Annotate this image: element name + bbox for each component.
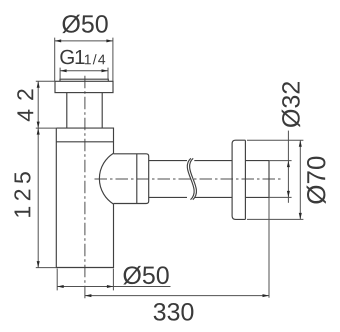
- neck tube: [67, 93, 102, 129]
- dome elbow arc: [99, 153, 113, 204]
- nut ring line: [136, 154, 138, 204]
- dim G1 1/4: label: [60, 50, 84, 65]
- dim 125: label: [14, 172, 30, 217]
- horizontal centerline of pipe: [95, 178, 281, 180]
- dim G1 1/4: extension lines: [60, 68, 108, 79]
- vertical centerline of bottle: [84, 76, 86, 298]
- dim Ø32: arrows: [287, 161, 290, 168]
- dim Ø50 bottom: extension lines: [57, 269, 113, 291]
- dim G1 1/4: dimension line: [60, 70, 108, 72]
- dim 330: arrows: [85, 294, 92, 297]
- dim Ø70: extension lines: [247, 140, 303, 219]
- dim G1 1/4: arrows: [60, 69, 67, 72]
- dim Ø32: extension lines: [269, 161, 292, 198]
- cap top plate (G1 1/4 thread end): [60, 79, 108, 81]
- pipe bottom wall: [149, 196, 232, 198]
- dim 42: shared vertical dimension line (with 125): [37, 81, 39, 267]
- pipe top wall: [149, 160, 232, 162]
- dim Ø50 bottom: label: [123, 266, 168, 285]
- dim Ø32: label: [282, 82, 301, 127]
- dim Ø50 top: arrows: [55, 39, 62, 42]
- dim 330: dimension line: [85, 295, 269, 297]
- dim 330: label: [154, 303, 194, 321]
- dim 42: arrows: [37, 81, 40, 88]
- wall flange plate: [232, 140, 245, 219]
- dim 42: extension lines: [36, 81, 57, 128]
- dim Ø50 top: label: [62, 15, 107, 34]
- dim 125: extension line at body bottom: [36, 267, 57, 269]
- dim 42: label: [17, 89, 33, 121]
- dim Ø50 bottom: arrows: [57, 285, 64, 288]
- bottle body outline: [56, 128, 113, 267]
- dim 125: arrows: [37, 128, 40, 135]
- dim Ø32: dimension line: [287, 131, 289, 203]
- compression nut: [114, 154, 149, 204]
- dim 330: right extension line: [268, 197, 270, 297]
- top flange ring: [55, 81, 113, 92]
- dim Ø50 top: dimension line: [55, 40, 113, 42]
- body cap ring line: [56, 141, 113, 143]
- dim Ø50 bottom: dimension line: [57, 286, 170, 288]
- wall socket stub: [245, 161, 269, 198]
- pipe break squiggle: [187, 158, 196, 199]
- dim Ø70: arrows: [299, 140, 302, 147]
- dim Ø70: dimension line: [299, 140, 301, 219]
- dim Ø50 top: extension lines: [55, 38, 113, 81]
- dim Ø70: label: [307, 157, 326, 204]
